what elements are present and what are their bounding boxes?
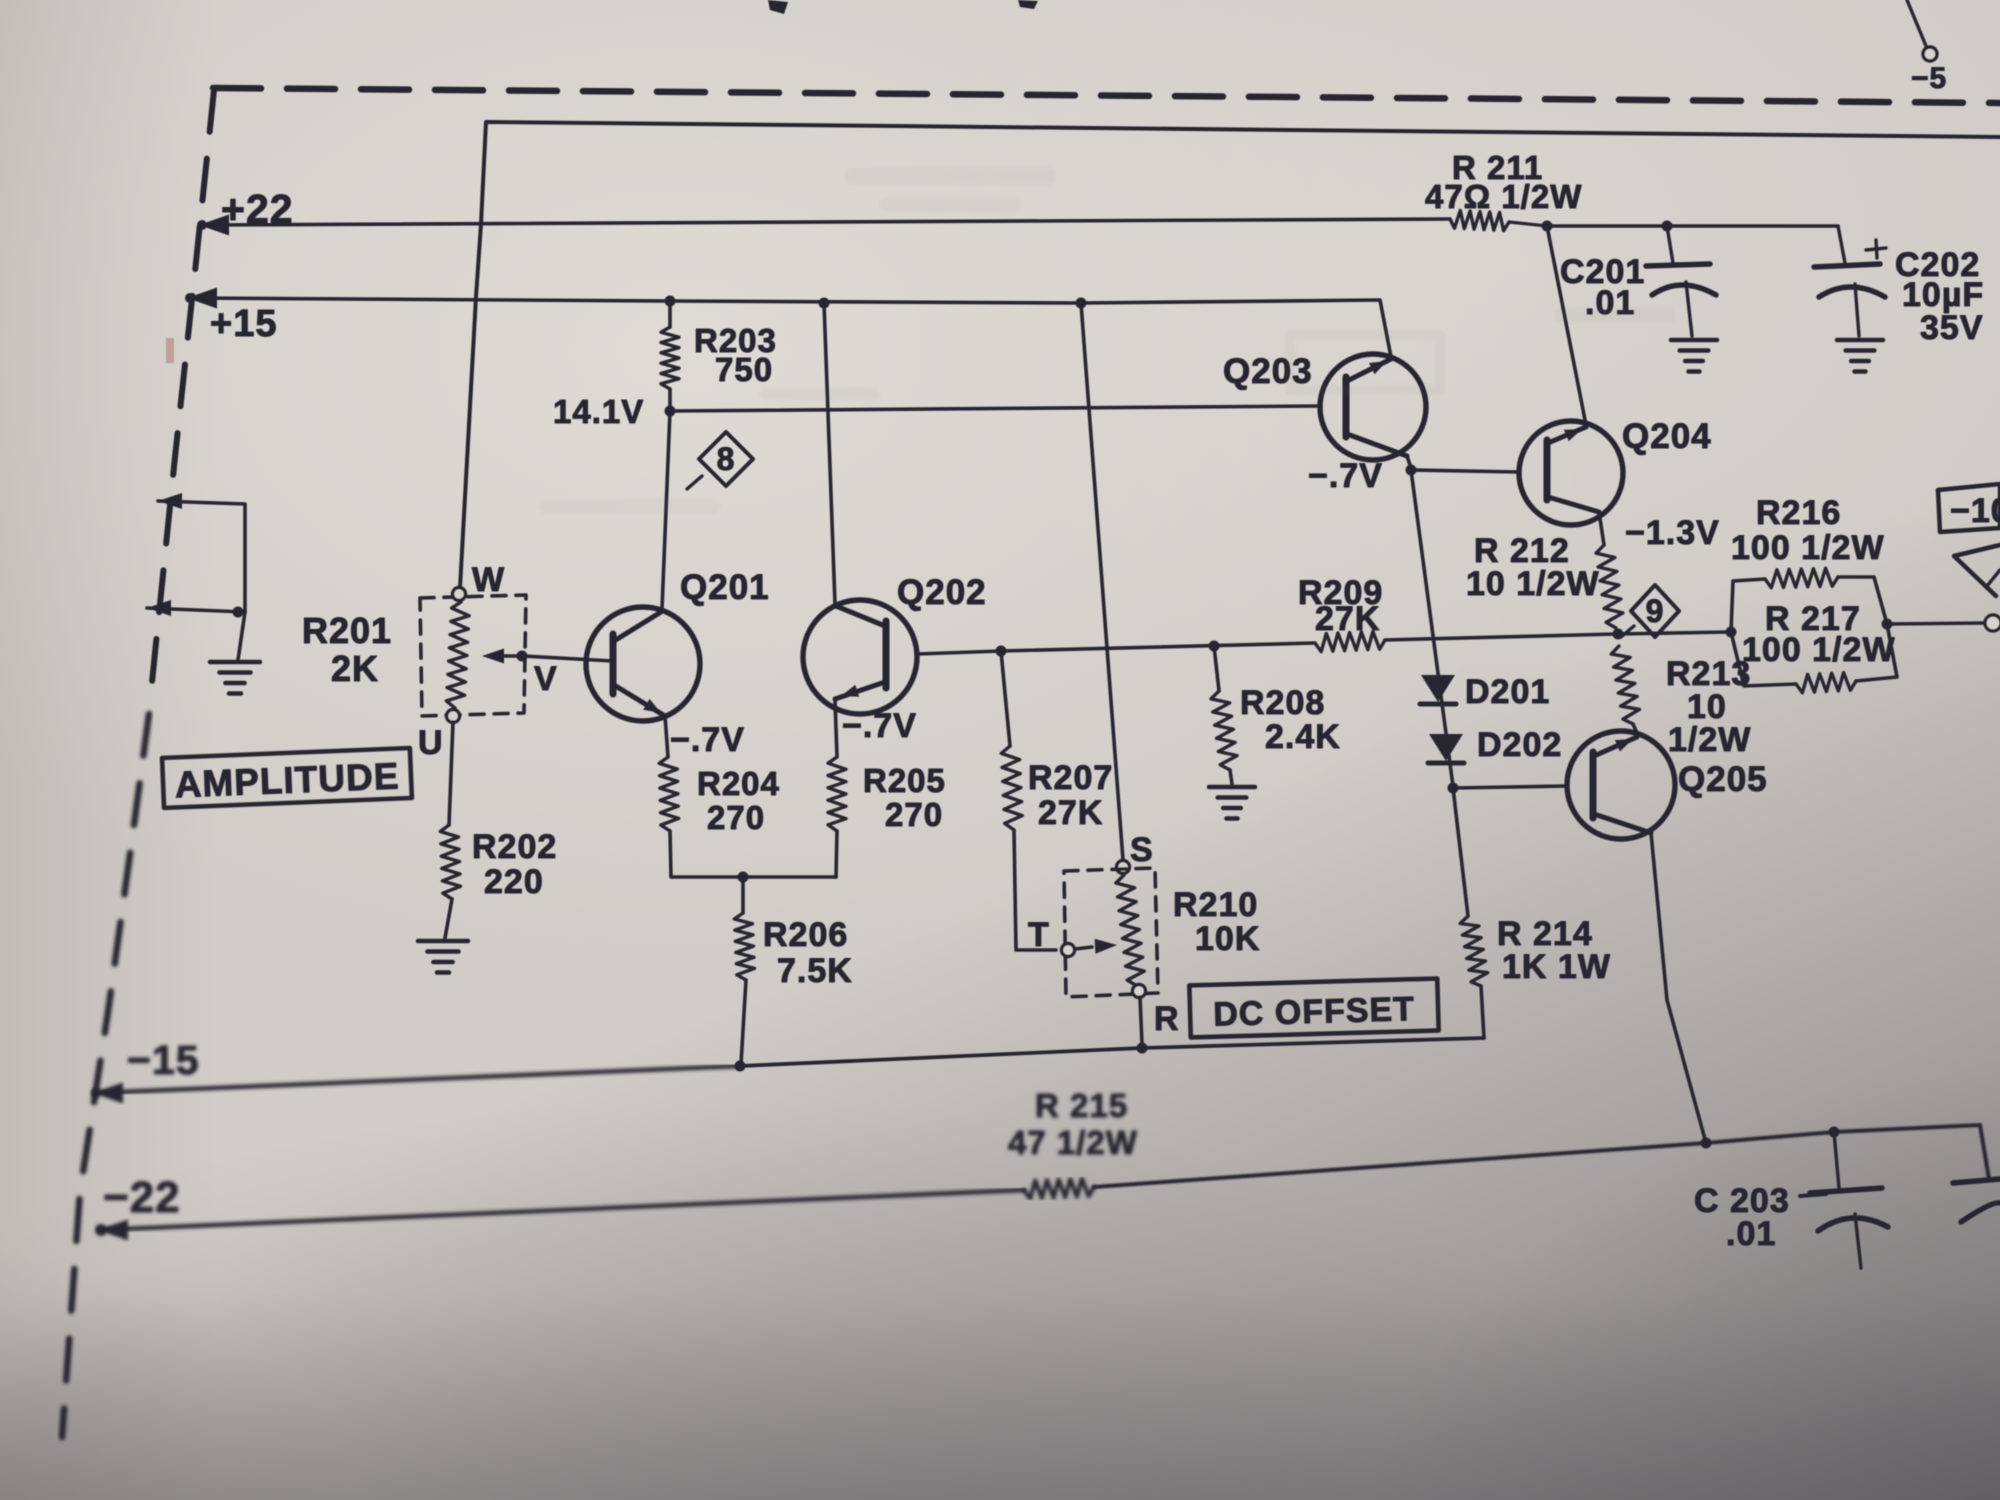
node 14.1V junction [665,406,676,417]
svg-text:35V: 35V [1920,309,1984,347]
svg-text:R 215: R 215 [1035,1087,1128,1124]
wire Q202 collector [824,303,835,604]
node Q205 base junction [1448,783,1459,794]
potentiometer R210 box [1064,868,1158,997]
svg-text:−.7V: −.7V [1308,457,1383,495]
wire Q205 base [1453,786,1567,788]
svg-text:2.4K: 2.4K [1265,718,1341,756]
node R217 right junction [1882,619,1893,630]
resistor R203 [661,327,679,389]
transistor Q205 [1567,731,1675,839]
wire -.7V to Q204 base [1411,470,1519,472]
text C202 plus [1866,248,1886,250]
ground C202 [1837,338,1883,343]
svg-text:2K: 2K [331,648,379,689]
svg-text:D201: D201 [1465,673,1550,711]
svg-text:R204: R204 [697,765,780,802]
node diamond 8 [699,432,753,486]
node -22 rail arrow [95,1220,128,1241]
svg-text:8: 8 [717,441,736,477]
ground R208 [1209,785,1255,790]
node R206 -15 junction [735,1061,746,1072]
svg-text:R210: R210 [1173,886,1258,924]
capacitor C202 [1838,226,1845,263]
node bracket arrow upper [158,493,182,509]
potentiometer R201 box [420,595,526,716]
wire R217 bottom path [1731,632,1796,686]
svg-text:R206: R206 [763,916,848,954]
node diamond 9 [1631,585,1679,637]
svg-text:R205: R205 [863,762,946,799]
svg-text:Q204: Q204 [1622,417,1712,456]
wire output [1887,623,1985,624]
node +15 rail arrow [187,288,217,309]
node -15 rail arrow [91,1083,123,1104]
node C201 junction [1662,221,1673,232]
transistor Q204 [1519,421,1623,525]
diode D202 [1429,734,1463,761]
wire R202 to ground [445,899,452,938]
wire Q203 emitter stub [1407,456,1411,468]
svg-text:100 1/2W: 100 1/2W [1742,631,1896,669]
text bleed ghosts [540,168,1675,513]
wire R209 to node9 [1385,634,1616,640]
node junction S feed top [1076,298,1087,309]
resistor R211 [1450,211,1509,231]
diode D201 [1421,675,1455,702]
text R215 label [1008,1087,1138,1161]
wire S feed [1081,303,1123,860]
svg-text:R: R [1154,1000,1180,1038]
wire R203 bottom [668,389,672,411]
svg-text:D202: D202 [1477,726,1562,764]
node T terminal [1062,944,1075,957]
text -10 box [1938,484,2000,532]
transistor Q201 [586,607,700,721]
resistor R214 [1460,916,1488,986]
wire R217 right [1856,624,1897,681]
wire R203 top [668,301,672,327]
text -22 label [103,1173,181,1222]
wire R216 top path [1731,579,1765,632]
node S terminal [1117,861,1130,874]
wire Q202 base [917,651,1001,654]
wire -22 rail right [1094,1125,1989,1187]
wire R214 top [1453,788,1468,916]
node R208 junction [1209,641,1220,652]
text -15 label [127,1037,200,1083]
svg-text:Q205: Q205 [1678,760,1768,799]
node output terminal [1985,615,2000,631]
wire R208 top [1214,646,1219,691]
node junction Q202 collector top [819,298,830,309]
svg-text:Q203: Q203 [1223,352,1313,391]
capacitor C203 [1834,1132,1839,1188]
resistor R201 element [446,602,469,708]
wire base line to R209 [1001,643,1315,651]
wire T wiper [1075,947,1092,949]
resistor R207 [1001,746,1022,830]
text DC OFFSET box [1189,979,1438,1038]
svg-text:10K: 10K [1195,920,1260,958]
svg-text:14.1V: 14.1V [553,393,644,430]
node C203 junction [1829,1127,1840,1138]
resistor R215 [1024,1179,1094,1199]
wire R207 top [1001,651,1010,746]
svg-text:27K: 27K [1315,600,1380,638]
svg-text:S: S [1130,831,1154,869]
wire Q202 emitter to R205 [835,700,837,757]
capacitor C201 [1667,226,1673,263]
wire R216 right [1838,577,1887,624]
wire diode chain top [1411,470,1453,786]
svg-text:+15: +15 [210,303,277,345]
text AMPLITUDE box [162,748,412,808]
svg-text:−22: −22 [103,1173,181,1222]
svg-text:10 1/2W: 10 1/2W [1466,565,1600,603]
transistor Q202 [803,600,917,714]
resistor R210 element [1116,875,1144,986]
ground bracket [210,660,260,665]
node -5 terminal [1923,47,1937,61]
wire top feedback line [460,122,2000,588]
wire R210 to -15 [1140,997,1142,1044]
wire R213 to Q205 collector [1633,724,1637,733]
wire bracket [158,501,245,612]
resistor R206 [741,877,745,913]
svg-text:270: 270 [707,799,765,836]
wire U to R202 [449,722,453,825]
wire triangle stub [1954,545,2000,596]
resistor R208 [1211,691,1237,770]
node junction R203 top [665,296,676,307]
svg-text:U: U [418,724,444,762]
wire V wiper [498,654,522,657]
wire V to Q201 base [522,656,613,661]
text top edge marks [768,0,788,14]
svg-text:47 1/2W: 47 1/2W [1008,1124,1138,1161]
wire R205 bottom [836,831,837,877]
svg-text:R216: R216 [1756,494,1841,532]
svg-text:Q201: Q201 [680,568,770,607]
svg-text:−.7V: −.7V [842,707,917,745]
svg-text:7.5K: 7.5K [777,952,853,990]
wire dashed border left [150,90,214,702]
node R206 top junction [738,872,749,883]
resistor R205 [828,757,846,831]
svg-text:R202: R202 [472,828,557,866]
node U terminal [447,710,460,723]
node R216 left junction [1726,627,1737,638]
node Q204 collector rail junction [1542,221,1553,232]
resistor R217 [1796,673,1856,693]
node Q202 base junction [996,646,1007,657]
wire -22 rail left [100,1190,1024,1230]
wire 14.1V to Q203 base [670,406,1320,411]
svg-text:−5: −5 [1911,62,1947,95]
svg-text:V: V [534,660,558,698]
svg-text:R207: R207 [1028,759,1113,797]
ground C201 [1671,338,1717,343]
wire -15 rail [95,1066,740,1093]
svg-text:1/2W: 1/2W [1668,721,1751,759]
svg-text:T: T [1028,916,1050,954]
resistor R216 [1765,568,1838,588]
wire +15 rail [189,298,1391,357]
resistor R213 [1611,646,1639,724]
node R junction [1137,1043,1148,1054]
svg-text:−.7V: −.7V [670,721,745,759]
svg-text:27K: 27K [1038,794,1103,832]
wire Q204 emitter to R212 [1599,512,1604,545]
wire bracket lower [147,608,245,612]
wire +22 rail left [201,219,1450,225]
svg-text:47Ω 1/2W: 47Ω 1/2W [1425,178,1582,215]
wire +22 rail right [1547,224,1838,228]
wire dashed border left lower [62,714,149,1437]
svg-text:220: 220 [484,863,544,901]
svg-text:Q202: Q202 [897,573,987,612]
svg-text:R201: R201 [302,610,392,651]
node Q205 emitter -22 junction [1701,1138,1712,1149]
svg-text:9: 9 [1646,593,1665,629]
node V junction [517,651,528,662]
svg-text:1K 1W: 1K 1W [1502,948,1611,986]
wire -5 stub [1907,0,1926,46]
wire Q201 collector [662,411,670,609]
svg-text:750: 750 [715,351,773,388]
resistor R204 [659,757,679,831]
wire bracket to ground [238,612,245,660]
svg-text:270: 270 [885,796,943,833]
wire R214 bottom [1481,986,1484,1038]
resistor R212 [1596,545,1623,628]
transistor Q203 [1320,354,1426,460]
wire R206 to -15 [741,980,746,1064]
svg-text:−15: −15 [127,1037,200,1083]
node W terminal [453,588,466,601]
svg-text:−10: −10 [1950,492,2000,530]
node bracket junction [233,607,244,618]
resistor R209 [1315,632,1385,652]
node R210 bottom terminal [1133,985,1146,998]
node bracket arrow lower [147,600,171,616]
resistor R202 [440,825,460,899]
capacitor C204 partial [1953,1179,2000,1183]
node R212 R213 junction [1613,629,1624,640]
wire R204 bottom [670,831,836,877]
svg-text:.01: .01 [1726,1215,1776,1253]
svg-text:W: W [472,561,505,599]
wire Q204 collector [1547,226,1586,425]
wire Q201 emitter to R204 [665,716,668,757]
node +22 rail arrow [199,215,229,236]
wire node9 to R216 [1618,632,1729,634]
svg-text:100 1/2W: 100 1/2W [1731,529,1885,567]
node -.7V junction [1406,465,1417,476]
svg-text:−1.3V: −1.3V [1625,514,1720,552]
wire R207 to T [1014,830,1056,950]
svg-text:DC OFFSET: DC OFFSET [1213,990,1416,1034]
wire dashed border top [213,88,2000,103]
svg-text:R208: R208 [1240,684,1325,722]
wire Q205 emitter [1651,833,1706,1143]
ground R202 [418,939,468,944]
wire R208 to ground [1230,770,1232,784]
